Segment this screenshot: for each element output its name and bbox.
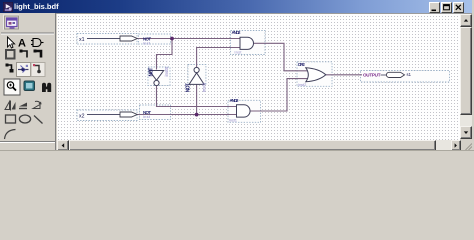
svg-text:inst8: inst8 — [164, 67, 169, 77]
svg-text:OUTPUT: OUTPUT — [363, 72, 381, 77]
svg-text:x2: x2 — [79, 113, 85, 119]
svg-text:inst: inst — [143, 41, 151, 46]
svg-text:inst: inst — [143, 114, 151, 119]
svg-text:inst9: inst9 — [201, 82, 206, 92]
svg-text:s1: s1 — [407, 72, 412, 77]
svg-text:AND2: AND2 — [230, 98, 240, 103]
svg-text:NOT: NOT — [148, 68, 154, 77]
svg-text:inst1: inst1 — [229, 118, 238, 123]
svg-text:inst: inst — [235, 50, 243, 55]
svg-text:x1: x1 — [79, 37, 85, 43]
svg-text:inst2: inst2 — [298, 82, 307, 87]
svg-text:OR2: OR2 — [298, 62, 306, 67]
svg-text:A: A — [18, 38, 26, 50]
svg-text:NOT: NOT — [186, 83, 192, 92]
svg-text:AND2: AND2 — [232, 30, 242, 35]
